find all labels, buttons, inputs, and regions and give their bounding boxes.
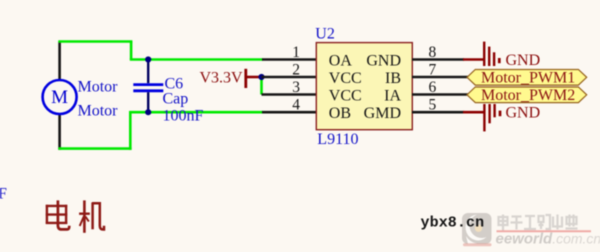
svg-text:V3.3V: V3.3V [200,69,244,86]
svg-text:3: 3 [292,79,300,96]
wire pin3 stub [262,93,318,96]
pin name OB [329,105,351,122]
label Motor line2 [78,103,119,120]
svg-text:GND: GND [506,105,541,122]
svg-text:IB: IB [385,70,401,87]
wire pin7 stub [412,76,468,79]
pin name VCC pin3 [329,87,362,104]
pin name VCC pin2 [329,70,362,87]
pin name GMD [364,105,401,122]
pin number 5 [429,97,437,114]
svg-text:VCC: VCC [329,87,362,104]
watermark 电子工程世界 (approx strokes) [499,215,578,231]
label GND bottom [506,105,541,122]
pin name OA [329,52,353,69]
ground top [484,42,499,66]
node junction top of C6 [145,56,151,62]
svg-text:F: F [0,186,7,203]
svg-text:GMD: GMD [364,105,401,122]
pin name IA [384,87,401,104]
wire [58,147,131,150]
pin number 1 [292,44,300,61]
svg-text:2: 2 [292,61,300,78]
pin number 7 [429,61,437,78]
label L9110 [317,131,358,148]
svg-text:L9110: L9110 [317,131,358,148]
capacitor C6 [133,60,163,113]
label Motor line1 [78,79,119,96]
pin number 6 [429,79,437,96]
wire pin5 stub [412,111,464,114]
watermark logo icon [462,213,492,246]
wire pin1 stub [262,58,317,61]
pin number 4 [292,97,300,114]
svg-text:Cap: Cap [163,91,189,108]
motor M [43,80,77,114]
label GND top [506,52,541,69]
wire [260,77,263,95]
svg-text:GND: GND [366,52,401,69]
node junction bottom of C6 [145,109,151,115]
svg-text:Motor_PWM1: Motor_PWM1 [481,70,575,87]
label Cap [163,91,189,108]
wire GND net top [463,58,484,61]
svg-text:eeworld.com.cn: eeworld.com.cn [496,231,600,248]
wire [58,114,61,150]
watermark underline [497,230,592,232]
wire pin8 stub [412,58,464,61]
svg-text:OB: OB [329,105,351,122]
svg-text:U2: U2 [315,26,335,43]
wire pin4 stub [262,111,317,114]
title 电机 (drawn strokes) [46,200,104,232]
label 100nF [163,108,204,125]
pin number 2 [292,61,300,78]
pin number 3 [292,79,300,96]
pin number 8 [429,44,437,61]
wire [130,58,263,61]
svg-text:VCC: VCC [329,70,362,87]
wire GND net bottom [463,111,484,114]
svg-text:1: 1 [292,44,300,61]
wire pin2 stub [262,76,318,79]
watermark eeworld.com.cn [496,231,600,248]
watermark ybx8.cn [421,214,485,231]
svg-text:4: 4 [292,97,300,114]
label F clipped at left edge [0,186,7,203]
wire [58,42,61,81]
wire [130,42,133,60]
label U2 [315,26,335,43]
wire pin6 stub [412,93,468,96]
pin name IB [385,70,401,87]
port Motor_PWM1 [467,70,587,87]
power V3.3V [200,69,262,88]
svg-text:Motor: Motor [78,103,119,120]
wire [129,111,263,114]
label C6 [165,76,184,93]
svg-text:OA: OA [329,52,353,69]
wire [129,112,132,150]
svg-text:100nF: 100nF [163,108,204,125]
wire [58,40,132,43]
svg-text:IA: IA [384,87,401,104]
svg-text:GND: GND [506,52,541,69]
node junction pin2 [258,74,264,80]
svg-text:ybx8.cn: ybx8.cn [421,214,485,231]
port Motor_PWM2 [467,87,587,104]
ground bottom [484,104,500,131]
op-amp U2 body L9110 [316,43,412,130]
svg-text:Motor_PWM2: Motor_PWM2 [481,87,575,104]
pin name GND pin8 [366,52,401,69]
svg-text:M: M [51,87,68,108]
svg-text:Motor: Motor [78,79,119,96]
